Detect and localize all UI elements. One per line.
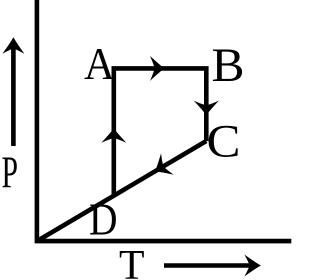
P direction arrow shaft	[11, 41, 16, 146]
P axis (vertical) and T axis (horizontal)	[37, 0, 291, 241]
arrow on segment D-A (pointing up)	[101, 128, 126, 143]
svg-text:A: A	[84, 38, 115, 89]
svg-text:C: C	[207, 117, 241, 168]
arrow on segment B-C (pointing down)	[194, 101, 219, 116]
wire segment D-A and A-B and B-C (cycle path)	[114, 68, 207, 195]
T direction arrowhead (right)	[244, 255, 261, 277]
svg-text:P: P	[2, 147, 19, 197]
T direction arrow shaft	[164, 263, 257, 268]
svg-text:T: T	[119, 243, 145, 280]
arrow on segment C-D (pointing down-left)	[149, 153, 174, 182]
svg-text:D: D	[89, 194, 118, 244]
P direction arrowhead (up)	[2, 37, 24, 54]
svg-text:B: B	[212, 40, 245, 92]
wire diagonal line origin through D to C	[37, 141, 206, 241]
arrow on segment A-B (pointing right)	[150, 56, 165, 81]
